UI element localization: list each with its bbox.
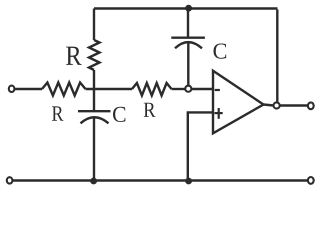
capacitor C1 [78,111,111,123]
wire R1 to node A and on to R2 [86,88,133,90]
resistor R1 [42,83,86,96]
junction dot bottom rail / C1 [90,178,97,185]
op-amp U1 [213,71,264,134]
resistor R2 [132,83,172,96]
wire C1 to bottom rail [93,118,95,181]
input terminal (bottom left) [7,177,13,183]
op-amp inverting pin "-" [215,89,220,91]
label C2 value "C" [214,44,227,59]
junction dot top rail / C2 [185,5,192,12]
junction dot bottom rail / non-inverting wire [185,178,192,185]
wire op-amp non-inverting input to bottom rail [188,112,213,180]
label R3 value "R" [66,47,82,65]
output terminal (bottom right) [308,177,314,184]
input terminal (top left) [9,86,15,92]
wire top rail [94,7,278,9]
wire op-amp output to output node [264,105,274,106]
label R2 value "R" [144,103,156,117]
wire top rail to C2 [187,9,189,38]
wire node B to op-amp inverting input [191,88,213,90]
wire R3 top to top rail [93,9,95,41]
capacitor C2 [171,38,205,49]
resistor R3 (vertical feedback) [89,40,100,70]
wire input to R1 [15,88,42,90]
wire C2 to node B [187,43,189,86]
bottom rail wire [13,179,308,181]
op-amp non-inverting pin "+" [215,108,223,119]
output node (open circle) [274,102,280,108]
node B (open circle) [185,86,191,92]
label C1 value "C" [113,107,125,122]
output terminal (top right) [308,102,314,109]
node A [93,70,95,111]
wire output node to output terminal [280,104,308,106]
wire feedback: top rail down to output node [276,10,278,103]
wire R2 to node B [172,88,186,90]
label R1 value "R" [52,106,63,120]
